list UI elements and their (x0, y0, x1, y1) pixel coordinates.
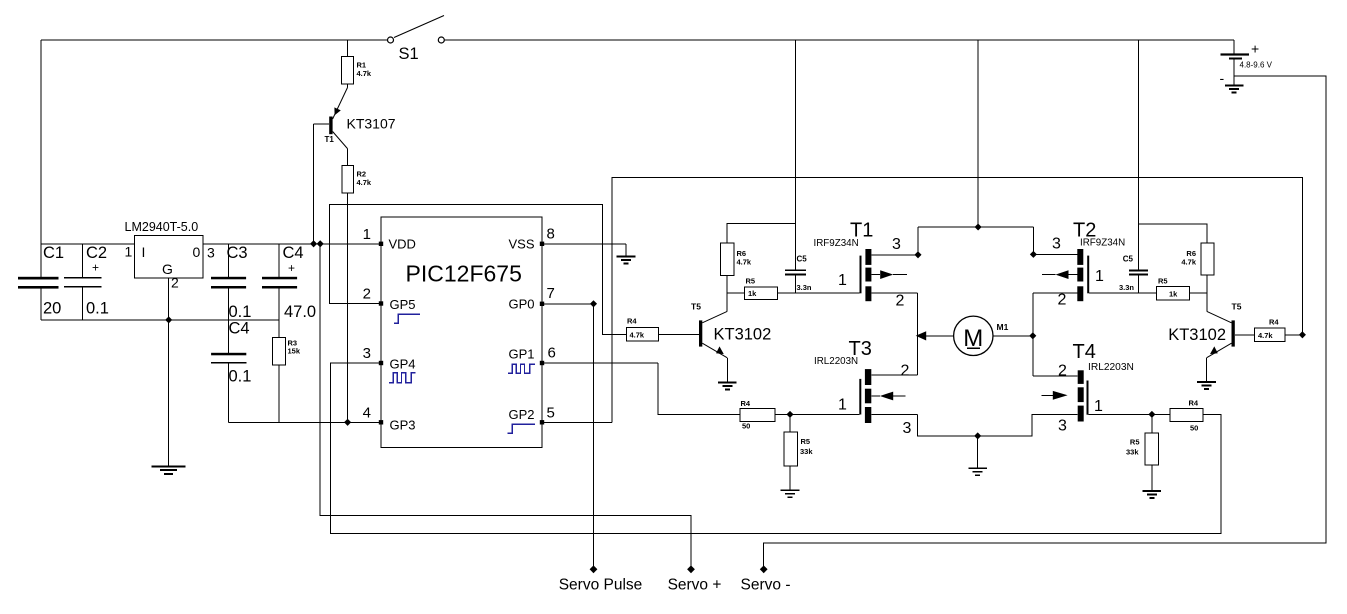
svg-text:1: 1 (363, 226, 371, 243)
svg-text:R4: R4 (1189, 399, 1199, 408)
svg-text:KT3102: KT3102 (1168, 326, 1226, 344)
svg-text:Servo Pulse: Servo Pulse (559, 577, 643, 594)
svg-text:M1: M1 (997, 322, 1009, 332)
svg-text:IRL2203N: IRL2203N (814, 356, 858, 367)
svg-text:IRF9Z34N: IRF9Z34N (814, 238, 859, 249)
svg-text:GP3: GP3 (390, 418, 416, 433)
svg-text:2: 2 (901, 363, 910, 380)
svg-text:50: 50 (1190, 424, 1198, 433)
svg-text:R5: R5 (1130, 438, 1140, 447)
svg-text:PIC12F675: PIC12F675 (406, 261, 522, 287)
svg-text:GP4: GP4 (390, 356, 416, 371)
svg-text:20: 20 (43, 300, 61, 318)
svg-text:LM2940T-5.0: LM2940T-5.0 (125, 220, 199, 234)
svg-text:1k: 1k (1169, 289, 1178, 298)
svg-text:1: 1 (838, 397, 847, 414)
svg-text:1: 1 (838, 272, 847, 289)
svg-text:4.8-9.6 V: 4.8-9.6 V (1240, 61, 1273, 70)
svg-text:4: 4 (363, 405, 371, 422)
svg-text:C5: C5 (797, 255, 808, 264)
svg-text:GP5: GP5 (390, 297, 416, 312)
svg-text:C4: C4 (283, 244, 304, 262)
svg-text:47.0: 47.0 (284, 303, 316, 321)
svg-text:50: 50 (742, 422, 750, 431)
svg-text:4.7k: 4.7k (357, 69, 372, 78)
svg-text:R4: R4 (741, 399, 751, 408)
svg-text:33k: 33k (800, 447, 813, 456)
svg-text:3.3n: 3.3n (797, 283, 812, 292)
svg-text:C5: C5 (1123, 255, 1134, 264)
svg-text:GP2: GP2 (508, 407, 534, 422)
svg-text:-: - (1220, 70, 1225, 86)
svg-text:33k: 33k (1126, 448, 1139, 457)
svg-text:C3: C3 (227, 244, 248, 262)
svg-text:1: 1 (1094, 398, 1103, 415)
svg-text:VDD: VDD (389, 237, 416, 252)
svg-text:+: + (92, 261, 99, 275)
svg-text:2: 2 (896, 293, 905, 310)
svg-text:C4: C4 (229, 320, 250, 338)
svg-text:0.1: 0.1 (229, 303, 252, 321)
svg-text:6: 6 (548, 345, 556, 362)
svg-text:IRF9Z34N: IRF9Z34N (1080, 238, 1125, 249)
svg-text:R4: R4 (1269, 318, 1279, 327)
svg-text:1: 1 (1095, 268, 1104, 285)
svg-text:+: + (288, 261, 295, 275)
svg-text:S1: S1 (399, 45, 419, 63)
svg-text:Servo -: Servo - (741, 577, 791, 594)
svg-text:15k: 15k (288, 347, 301, 356)
svg-text:T5: T5 (1232, 302, 1242, 312)
svg-text:0: 0 (193, 244, 201, 260)
svg-text:R5: R5 (801, 437, 811, 446)
svg-text:3: 3 (1058, 418, 1067, 435)
svg-text:3: 3 (892, 236, 901, 253)
svg-text:R4: R4 (627, 317, 637, 326)
svg-text:0.1: 0.1 (229, 368, 252, 386)
svg-text:R5: R5 (746, 277, 756, 286)
svg-text:T4: T4 (1073, 341, 1096, 363)
svg-text:I: I (142, 244, 146, 260)
svg-text:KT3102: KT3102 (714, 326, 772, 344)
svg-text:4.7k: 4.7k (1258, 331, 1273, 340)
svg-text:2: 2 (1058, 363, 1067, 380)
svg-text:3: 3 (1052, 236, 1061, 253)
svg-text:2: 2 (363, 286, 371, 303)
svg-text:0.1: 0.1 (86, 300, 109, 318)
svg-text:T5: T5 (691, 302, 701, 312)
svg-text:VSS: VSS (508, 237, 534, 252)
svg-text:1k: 1k (748, 289, 757, 298)
svg-text:3: 3 (903, 420, 912, 437)
svg-text:1: 1 (125, 244, 133, 260)
svg-text:T1: T1 (325, 135, 335, 144)
svg-text:GP0: GP0 (508, 297, 534, 312)
svg-text:4.7k: 4.7k (357, 178, 372, 187)
svg-text:IRL2203N: IRL2203N (1088, 362, 1134, 373)
svg-text:KT3107: KT3107 (347, 116, 396, 132)
svg-text:4.7k: 4.7k (737, 258, 752, 267)
svg-text:3.3n: 3.3n (1119, 283, 1134, 292)
svg-text:2: 2 (1058, 292, 1067, 309)
svg-text:R5: R5 (1158, 277, 1168, 286)
svg-text:4.7k: 4.7k (630, 331, 645, 340)
svg-text:GP1: GP1 (508, 347, 534, 362)
svg-text:C1: C1 (43, 244, 64, 262)
svg-text:C2: C2 (86, 244, 107, 262)
svg-text:5: 5 (547, 405, 555, 422)
svg-text:2: 2 (171, 275, 179, 291)
svg-text:4.7k: 4.7k (1181, 258, 1196, 267)
svg-text:3: 3 (363, 345, 371, 362)
svg-text:+: + (1251, 41, 1259, 57)
svg-text:3: 3 (207, 245, 215, 261)
svg-text:7: 7 (547, 285, 555, 302)
svg-text:Servo +: Servo + (668, 577, 722, 594)
svg-text:8: 8 (547, 226, 555, 243)
